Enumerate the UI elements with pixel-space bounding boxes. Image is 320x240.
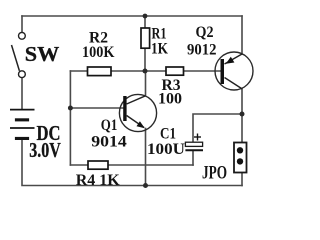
svg-text:R4 1K: R4 1K [76, 172, 121, 189]
svg-text:JPO: JPO [202, 163, 227, 184]
svg-text:100: 100 [158, 91, 182, 108]
svg-text:9014: 9014 [91, 134, 127, 151]
svg-text:3.0V: 3.0V [29, 138, 61, 162]
svg-text:9012: 9012 [187, 42, 217, 59]
svg-text:Q1: Q1 [101, 117, 118, 134]
svg-text:100U: 100U [147, 141, 185, 158]
svg-text:Q2: Q2 [196, 24, 214, 41]
svg-text:100K: 100K [82, 44, 115, 61]
svg-text:C1: C1 [160, 126, 176, 143]
svg-text:1K: 1K [151, 41, 168, 58]
svg-text:SW: SW [25, 42, 60, 66]
